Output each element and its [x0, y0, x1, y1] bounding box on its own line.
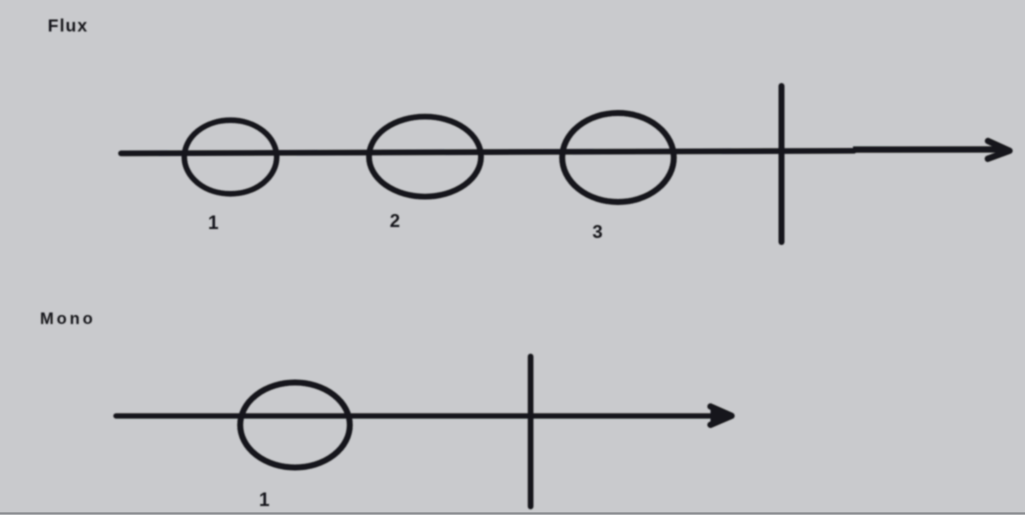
- svg-text:Mono: Mono: [40, 310, 96, 328]
- svg-text:1: 1: [208, 213, 219, 234]
- svg-text:1: 1: [259, 490, 270, 511]
- svg-text:2: 2: [390, 210, 400, 231]
- svg-text:3: 3: [592, 221, 602, 242]
- svg-text:Flux: Flux: [48, 16, 88, 36]
